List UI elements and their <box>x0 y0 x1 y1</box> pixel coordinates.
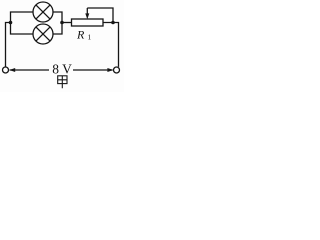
svg-text:R: R <box>76 28 85 42</box>
svg-text:1: 1 <box>88 33 92 42</box>
svg-text:8 V: 8 V <box>52 61 72 76</box>
